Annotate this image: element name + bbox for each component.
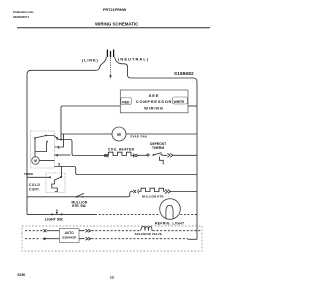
svg-text:WHITE: WHITE — [174, 100, 185, 104]
svg-text:EVAP. FAN: EVAP. FAN — [131, 135, 147, 139]
connector arrow (wire 2) — [42, 237, 46, 240]
wire light line (dashed to bulb) — [95, 213, 160, 215]
junction terminal 2 node — [60, 139, 62, 141]
connector X (wire 1) — [44, 229, 47, 232]
svg-text:MULLION HTR.: MULLION HTR. — [142, 194, 165, 198]
mullion heater element — [139, 188, 164, 191]
svg-text:(NEUTRAL): (NEUTRAL) — [118, 57, 149, 62]
header title WIRING SCHEMATIC — [95, 22, 139, 27]
svg-text:WIRING SCHEMATIC: WIRING SCHEMATIC — [95, 22, 139, 27]
wire 2 dashed to neutral bus — [92, 238, 189, 240]
wire 1 to icemaker box — [47, 230, 60, 232]
timer switch contacts — [34, 135, 54, 143]
svg-text:Publication No.: Publication No. — [13, 10, 34, 14]
svg-text:(LINE): (LINE) — [82, 58, 99, 63]
svg-text:TIMER: TIMER — [24, 172, 34, 176]
wire timer terminal 1 to fan line — [55, 134, 64, 147]
wire timer terminal 4 — [55, 154, 71, 156]
icemaker output wires to connectors — [79, 231, 85, 239]
connector (left of coil heater) — [104, 154, 108, 158]
wire mullion heater to neutral bus — [164, 191, 198, 193]
header publication number text — [13, 10, 34, 19]
icemaker supply wire 2 (dashed) — [25, 238, 41, 240]
timer internal wiring — [35, 138, 47, 157]
svg-text:COMPRESSOR: COMPRESSOR — [136, 99, 172, 104]
svg-text:S290: S290 — [17, 273, 25, 277]
connector >> (wire 1 right) — [86, 229, 91, 232]
icemaker box text — [62, 231, 76, 240]
svg-text:LIGHT SW.: LIGHT SW. — [45, 218, 63, 222]
refrigerator light bulb — [160, 199, 181, 220]
compressor wiring box — [120, 90, 188, 113]
svg-text:COIL HEATER: COIL HEATER — [108, 147, 135, 151]
svg-text:HTR. SW.: HTR. SW. — [72, 204, 86, 208]
svg-text:SOLENOID VALVE: SOLENOID VALVE — [135, 232, 162, 236]
icemaker supply wire 1 (dashed) — [25, 230, 43, 232]
wire compressor feed (red) — [61, 106, 120, 140]
wire defrost circuit to neutral bus — [163, 154, 198, 156]
water solenoid valve coil — [141, 227, 153, 231]
svg-text:12: 12 — [110, 275, 114, 279]
wire mullion heater switch line — [27, 192, 133, 197]
svg-text:M: M — [34, 159, 37, 163]
svg-text:ICEMAKER: ICEMAKER — [62, 236, 76, 240]
ground wire (dashed, from plug center prong) — [109, 58, 112, 79]
timer motor wire to terminal 3 — [39, 160, 54, 162]
svg-text:3: 3 — [58, 161, 61, 166]
svg-text:5995326571: 5995326571 — [13, 15, 29, 19]
connector (defrost therm to neutral) — [168, 153, 173, 157]
wire LINE: plug to left bus — [27, 57, 106, 74]
header rule — [17, 27, 210, 29]
wire 1 dashed from solenoid to border — [153, 230, 202, 232]
svg-text:RED: RED — [122, 100, 130, 104]
svg-text:AUTO: AUTO — [65, 231, 74, 235]
connector (left of mullion heater) — [133, 190, 138, 194]
wire timer terminal 3 to neutral — [55, 167, 198, 175]
wire timer t3 to cold control stub — [61, 167, 63, 178]
label DEFROST THERM — [150, 142, 167, 150]
wire label WHITE (boxed) — [173, 97, 188, 104]
cold control contacts — [49, 176, 62, 180]
label COLD CONT. — [29, 183, 41, 191]
wire cold control feed from line bus — [27, 176, 50, 178]
wire label RED (boxed) — [121, 98, 132, 105]
cold control dashed box — [46, 173, 65, 193]
svg-text:CONT.: CONT. — [29, 187, 40, 191]
compressor box text — [136, 93, 172, 111]
timer motor — [32, 157, 40, 165]
defrost coil heater element — [74, 152, 134, 155]
power plug prongs — [107, 50, 113, 58]
header model number text — [103, 8, 127, 12]
wire light line (dashed bulb to neutral) — [180, 213, 197, 215]
wire timer terminal 2 — [55, 136, 62, 140]
wire refrigerator light line (left, solid) — [27, 213, 95, 215]
wire right bus — [196, 82, 198, 239]
label MULLION HTR. SW. — [72, 200, 88, 208]
defrost thermostat — [147, 153, 163, 165]
wire 1 dashed to solenoid — [92, 230, 141, 232]
wire left bus — [26, 74, 28, 214]
svg-text:SEE: SEE — [149, 93, 159, 98]
auto icemaker box — [60, 229, 80, 243]
svg-text:REFRIG. LIGHT: REFRIG. LIGHT — [155, 221, 185, 225]
connector (right of mullion heater) — [165, 190, 170, 194]
wire heater to defrost thermostat — [137, 154, 147, 156]
svg-text:FRT21PRHW: FRT21PRHW — [103, 8, 127, 12]
wire 2 to icemaker box — [46, 238, 60, 240]
svg-text:M: M — [117, 132, 121, 137]
evaporator fan motor M1 — [112, 127, 126, 141]
wire evap fan line (left) — [61, 133, 112, 135]
wire evap fan line (right) — [126, 133, 197, 135]
svg-text:WIRING: WIRING — [144, 105, 164, 110]
wire defrost heater feed (step from t2 junction) — [61, 140, 74, 156]
connector >> (wire 2 right) — [86, 237, 91, 240]
wire NEUTRAL: plug to right bus — [115, 57, 197, 82]
wire compressor return (white) — [188, 105, 197, 107]
svg-text:S188682: S188682 — [174, 71, 194, 76]
wire 2 solid tail to bus — [188, 238, 197, 240]
defrost timer box — [31, 131, 55, 168]
mullion heater switch — [75, 193, 84, 197]
icemaker option dashed border — [22, 226, 202, 251]
light switch (door plunger) — [51, 209, 62, 215]
cold control sensing bulb — [52, 181, 58, 192]
connector (right of coil heater) — [133, 154, 137, 158]
svg-text:THERM: THERM — [152, 146, 164, 150]
